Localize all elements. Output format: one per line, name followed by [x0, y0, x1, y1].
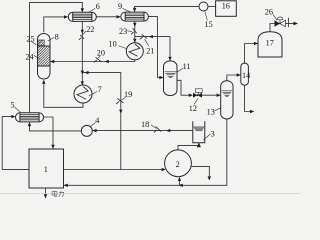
wire: HX9 right outlet down to separator 11 left inlet — [148, 17, 163, 80]
wire: junction branch y36.6 with valve 21 and feed to vessel 11 top — [135, 35, 172, 61]
valve 20 — [94, 57, 102, 62]
label 9 — [118, 2, 131, 12]
svg-text:5: 5 — [10, 101, 14, 110]
label 15 — [205, 11, 213, 29]
valve 22 — [79, 35, 84, 40]
wire: tank 3 outlet through valve 18 to pump 4 suction — [92, 129, 193, 132]
wire: vessel 14 top to tank 17 left inlet — [245, 42, 258, 63]
svg-text:13: 13 — [207, 108, 215, 117]
svg-text:8: 8 — [55, 33, 59, 42]
label 25 — [26, 35, 36, 45]
label 18 — [141, 120, 156, 129]
svg-text:1: 1 — [44, 165, 48, 174]
svg-text:23: 23 — [119, 27, 127, 36]
svg-text:17: 17 — [266, 39, 274, 48]
label 11 — [177, 62, 191, 72]
label 16 — [222, 2, 230, 11]
svg-text:12: 12 — [189, 104, 197, 113]
wire: pump 15 to HX9 top inlet — [133, 6, 199, 12]
svg-text:15: 15 — [205, 20, 213, 29]
svg-text:22: 22 — [86, 25, 94, 34]
wire: HX9 bottom outlet down to compressor 10 — [133, 21, 136, 43]
svg-text:18: 18 — [141, 120, 149, 129]
svg-text:25: 25 — [26, 35, 34, 44]
separator vessel 11 — [164, 61, 178, 96]
circulator 2 — [165, 150, 192, 177]
label 6 — [88, 2, 100, 12]
label: power text (dian li) drawn as strokes — [52, 191, 64, 197]
vessel 13 — [221, 81, 233, 119]
tank 17 — [258, 32, 282, 57]
tank 3 — [193, 121, 205, 143]
label 1 — [44, 165, 48, 174]
valve 18 — [154, 126, 161, 132]
control valve 26 — [275, 17, 289, 27]
wire: bottom return line vessel 13 to engine 1 with branch to circulator 2 — [64, 119, 227, 187]
svg-text:20: 20 — [97, 48, 105, 57]
wire: compressor 10 bottom to reactor 8 right inlet — [50, 60, 135, 63]
heat exchanger 5 — [16, 113, 44, 122]
svg-text:11: 11 — [183, 62, 191, 71]
svg-text:14: 14 — [242, 71, 250, 80]
svg-text:9: 9 — [118, 2, 122, 11]
label 24 — [25, 53, 39, 62]
wire: heater 7 bottom to reactor 8 bottom inlet — [42, 80, 83, 108]
compressor 10 — [126, 43, 143, 60]
label 23 — [119, 27, 132, 36]
vessel 14 — [241, 63, 249, 85]
engine box 1 — [29, 149, 64, 188]
svg-text:7: 7 — [98, 85, 102, 94]
reactor vessel 8 — [38, 34, 51, 80]
svg-text:26: 26 — [265, 8, 273, 17]
heat exchanger 9 — [121, 12, 149, 21]
label 3 — [203, 130, 215, 141]
valve 21 — [140, 34, 147, 39]
wire: engine 1 jacket out to HX5 left inlet — [2, 115, 29, 169]
valve 23 — [131, 28, 136, 34]
label 26 — [265, 8, 277, 20]
wire: vessel 13 top to vessel 14 left inlet — [227, 73, 241, 80]
pump 15 — [199, 2, 208, 11]
wire: HX5 right outlet down into engine 1 top — [44, 117, 55, 149]
svg-text:4: 4 — [95, 116, 99, 125]
label 5 — [10, 101, 21, 113]
svg-text:2: 2 — [176, 160, 180, 169]
wire: engine 1 bottom power output — [44, 188, 48, 198]
svg-text:21: 21 — [146, 47, 154, 56]
svg-text:10: 10 — [109, 40, 117, 49]
wire: circulator 2 top to tank 3 bottom — [178, 143, 201, 150]
label 19 — [122, 90, 133, 100]
box 16 — [216, 1, 237, 16]
svg-text:6: 6 — [96, 2, 100, 11]
label 10 — [109, 40, 127, 49]
control valve 12 — [193, 89, 202, 98]
wire: HX6 right outlet to HX9 left inlet — [96, 15, 121, 18]
wire: HX6 bottom down through valve 22 to junction and heater 7 — [81, 21, 84, 85]
label 22 — [83, 25, 95, 35]
wire: vessel 14 bottom product out — [245, 85, 255, 113]
pump 4 — [81, 125, 92, 136]
label 21 — [145, 39, 155, 55]
wire: outer loop HX5 shell top up and over to HX6 top inlet — [30, 2, 85, 112]
label 20 — [97, 48, 105, 58]
label 4 — [90, 116, 99, 127]
wire: vessel 8 top to HX6 left inlet — [44, 15, 69, 32]
wire: junction branch to valve 19 down to engine loop — [82, 71, 122, 170]
faint page line at bottom — [0, 193, 300, 195]
heat exchanger 6 — [68, 12, 96, 21]
label 14 — [242, 71, 250, 80]
wire: tank 3 bottom feed arrow — [197, 143, 201, 147]
label 12 — [189, 98, 198, 112]
wire: pump 15 to box 16 — [208, 5, 216, 7]
svg-text:16: 16 — [222, 2, 230, 11]
wire: pump 4 discharge to HX5 bottom inlet — [28, 122, 82, 131]
wire: branch up into circulator 2 bottom — [178, 177, 181, 186]
label 8 — [48, 33, 59, 42]
wire: engine 1 right outlet to circulator 2 — [64, 168, 166, 171]
heater 7 — [74, 85, 92, 103]
svg-text:3: 3 — [211, 130, 215, 139]
valve 19 — [116, 99, 123, 105]
wire: vessel 11 outlet to control valve 12 to vessel 13 — [177, 80, 221, 97]
label 13 — [207, 108, 221, 117]
wire: circulator 2 right discharge down — [191, 166, 211, 180]
wire: tank 17 top to control valve 26 and product arrow — [270, 22, 298, 32]
label 7 — [89, 85, 102, 96]
label 17 — [266, 39, 274, 48]
svg-text:24: 24 — [25, 53, 33, 62]
label 2 — [176, 160, 180, 169]
